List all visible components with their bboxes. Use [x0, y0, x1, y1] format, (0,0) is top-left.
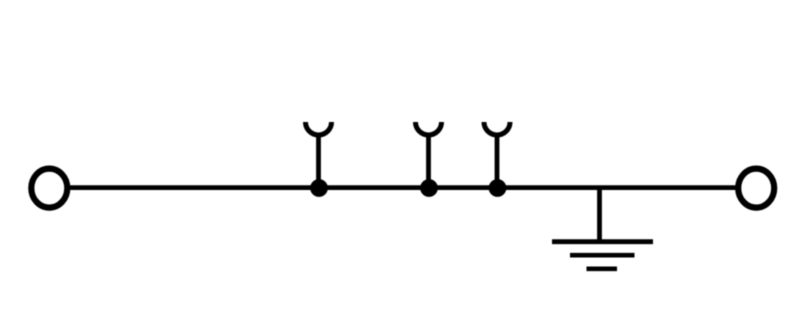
terminal circle right	[738, 169, 774, 208]
tap T1 socket contact	[306, 122, 332, 188]
ground	[552, 187, 653, 269]
wire main horizontal	[69, 185, 737, 190]
junction dot at T2	[420, 179, 438, 197]
junction dot at T1	[310, 179, 328, 197]
tap T2 socket contact	[416, 122, 442, 188]
junction dot at T3	[489, 179, 507, 197]
tap T3 socket contact	[484, 122, 510, 188]
terminal circle left	[31, 169, 67, 208]
